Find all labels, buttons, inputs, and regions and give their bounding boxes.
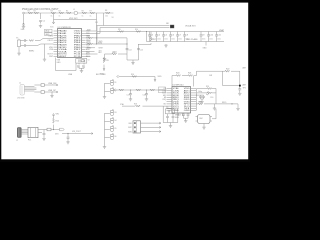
wire <box>86 28 101 34</box>
resistor R22 <box>223 69 240 73</box>
capacitor C25 <box>66 134 69 144</box>
capacitor C27 <box>202 95 205 99</box>
microcontroller U1 <box>45 27 92 58</box>
svg-text:R20: R20 <box>176 73 179 75</box>
capacitor C1 <box>39 21 46 24</box>
wire <box>86 35 91 37</box>
wire bus <box>196 89 198 111</box>
resistor R16 <box>131 74 137 77</box>
capacitor C7 <box>176 32 181 42</box>
svg-text:3V3: 3V3 <box>95 22 98 24</box>
svg-text:1k: 1k <box>59 16 61 18</box>
svg-text:R25: R25 <box>56 121 59 123</box>
capacitor C20 <box>166 114 169 123</box>
wire <box>212 109 216 119</box>
svg-text:5V0: 5V0 <box>55 134 58 136</box>
resistor R12 <box>87 36 127 43</box>
ground <box>103 54 106 61</box>
text labels cap values <box>150 38 221 40</box>
junction <box>146 31 147 32</box>
svg-text:GND: GND <box>45 34 50 36</box>
schematic sheet <box>0 0 250 162</box>
svg-text:R5: R5 <box>66 11 68 13</box>
wire <box>141 131 162 133</box>
svg-text:C18: C18 <box>143 95 146 97</box>
svg-text:4p7: 4p7 <box>206 94 209 96</box>
junction <box>96 43 97 44</box>
resistor R23 <box>198 102 215 105</box>
svg-text:C7: C7 <box>179 35 181 37</box>
svg-text:1k: 1k <box>82 16 84 18</box>
wire VCC rail top <box>41 12 104 14</box>
wire <box>40 13 42 19</box>
svg-text:U2 NRF24L0: U2 NRF24L0 <box>173 85 184 87</box>
wire <box>138 44 151 46</box>
wire <box>86 43 89 45</box>
junction <box>117 31 118 32</box>
capacitor C12 <box>21 39 28 42</box>
svg-text:100n: 100n <box>202 38 206 40</box>
svg-text:C30: C30 <box>210 97 213 99</box>
svg-text:GND PLANE: GND PLANE <box>186 38 198 41</box>
junction <box>231 103 232 104</box>
capacitor C9 <box>200 32 205 42</box>
wire <box>104 113 106 145</box>
svg-text:VIN_PROT: VIN_PROT <box>72 131 82 133</box>
switch S5 <box>105 126 117 132</box>
svg-text:R21: R21 <box>188 73 191 75</box>
capacitor C21 <box>172 114 175 123</box>
net label <box>128 123 133 133</box>
svg-text:GND: GND <box>203 48 208 50</box>
svg-text:IRQ: IRQ <box>163 99 167 101</box>
resistor R13 <box>87 43 127 49</box>
boxed net label <box>159 87 166 93</box>
ground <box>164 44 167 47</box>
wire <box>21 130 28 135</box>
capacitor C5 <box>162 32 167 42</box>
svg-text:R3: R3 <box>51 11 53 13</box>
bus wire <box>100 27 170 29</box>
text label <box>99 41 117 54</box>
svg-text:R24: R24 <box>206 86 209 88</box>
svg-text:1k: 1k <box>51 16 53 18</box>
resistor R1 <box>27 11 41 14</box>
oscillator X1 <box>196 115 213 124</box>
ferrite bead FB4 <box>47 128 54 131</box>
svg-text:GND: GND <box>173 110 180 112</box>
ground <box>169 125 172 128</box>
svg-text:TP2: TP2 <box>243 88 246 90</box>
capacitor C11 <box>215 32 221 42</box>
wire <box>24 87 36 92</box>
junction <box>67 133 68 134</box>
capacitor C26 <box>199 95 202 99</box>
svg-text:10k: 10k <box>87 40 90 42</box>
capacitor C18 <box>143 89 149 100</box>
svg-text:R7: R7 <box>90 11 92 13</box>
crystal Y2 <box>76 59 90 64</box>
power rail <box>97 31 224 33</box>
svg-text:C9: C9 <box>202 35 204 37</box>
svg-text:C10: C10 <box>210 35 213 37</box>
wire <box>44 44 46 58</box>
capacitor C16 <box>82 63 85 68</box>
svg-text:R4: R4 <box>59 11 61 13</box>
wire <box>86 53 98 55</box>
inductor L1 <box>73 9 78 15</box>
svg-text:VDD 3V3: VDD 3V3 <box>69 18 78 20</box>
ground <box>103 146 106 149</box>
resistor R8 <box>103 10 113 18</box>
svg-text:BUTTONS: BUTTONS <box>96 74 106 76</box>
resistor R15 <box>103 57 109 63</box>
wire <box>119 76 155 78</box>
wire <box>62 133 90 135</box>
wire <box>102 13 104 26</box>
capacitor C10 <box>207 32 213 42</box>
svg-text:PC15: PC15 <box>74 56 82 58</box>
svg-text:FB1: FB1 <box>166 23 169 25</box>
wire <box>196 103 198 105</box>
svg-text:L1: L1 <box>73 9 75 11</box>
wire <box>28 44 54 46</box>
ground <box>103 96 106 99</box>
svg-text:R15: R15 <box>106 60 109 62</box>
wire <box>86 51 95 53</box>
connector J2 <box>16 128 21 143</box>
svg-text:Y2: Y2 <box>88 60 90 62</box>
switch S4 <box>105 118 117 124</box>
capacitor C15A <box>137 49 143 52</box>
svg-text:OSCO: OSCO <box>47 40 53 42</box>
net flag <box>117 75 119 78</box>
wire <box>172 76 176 87</box>
svg-text:S5: S5 <box>114 128 116 130</box>
capacitor C6 <box>169 32 174 42</box>
wire <box>56 58 77 71</box>
filter FL1 <box>28 127 38 141</box>
net labels U2 right <box>198 91 209 104</box>
ferrite bead FB3 <box>34 91 48 94</box>
capacitor C3 <box>148 32 153 42</box>
resistor R20 <box>176 73 181 77</box>
power flag <box>53 114 60 119</box>
wire <box>79 68 84 69</box>
resistor R17 <box>119 89 124 91</box>
net labels U2 left <box>162 88 167 105</box>
svg-text:GND: GND <box>57 62 62 64</box>
svg-text:C11: C11 <box>218 35 221 37</box>
connector J1 <box>17 83 25 100</box>
junction <box>96 37 97 38</box>
capacitor C23 <box>187 113 190 119</box>
wire <box>193 76 195 87</box>
crystal circuit Y3 <box>166 107 175 114</box>
svg-text:C5: C5 <box>165 35 167 37</box>
power flag <box>50 20 55 29</box>
resistor R15A <box>105 52 128 55</box>
capacitor C24 <box>42 130 45 141</box>
LED D1 <box>21 23 26 31</box>
ground <box>236 104 239 110</box>
resistor R7 <box>90 11 95 18</box>
svg-text:C8: C8 <box>186 35 188 37</box>
ferrite bead FB2 <box>34 84 48 87</box>
resistor R19 <box>150 89 155 91</box>
net arrow <box>90 133 93 135</box>
capacitor C13 <box>21 44 28 47</box>
svg-text:C15: C15 <box>140 50 143 52</box>
ground <box>39 25 42 28</box>
net VDD rail <box>54 13 97 26</box>
resistor R24 <box>197 86 217 89</box>
svg-text:S1: S1 <box>114 82 116 84</box>
wire <box>116 89 167 91</box>
wire <box>127 44 139 60</box>
wire <box>141 122 162 124</box>
svg-text:10k: 10k <box>105 16 108 18</box>
svg-text:USB_DP: USB_DP <box>48 90 57 92</box>
net flag <box>114 89 116 92</box>
wire <box>104 83 106 95</box>
ground <box>131 60 134 65</box>
wire <box>163 123 178 125</box>
svg-text:R23: R23 <box>199 102 202 104</box>
junction <box>196 95 197 96</box>
resistor R4 <box>59 11 64 18</box>
wire <box>23 14 25 24</box>
ground <box>184 118 189 122</box>
wire <box>194 71 223 75</box>
resistor R10 <box>135 29 141 32</box>
svg-text:100n: 100n <box>178 38 182 40</box>
svg-text:R1: R1 <box>28 11 30 13</box>
svg-text:S6: S6 <box>114 136 116 138</box>
svg-text:100n: 100n <box>164 38 168 40</box>
net label USB_DM <box>48 83 58 86</box>
power flag <box>100 65 105 76</box>
svg-text:VBAT: VBAT <box>219 29 225 32</box>
svg-text:R26: R26 <box>134 104 137 106</box>
wire <box>215 103 239 105</box>
svg-text:USB: USB <box>68 74 73 76</box>
svg-text:C6: C6 <box>172 35 174 37</box>
wire <box>86 26 97 32</box>
svg-text:U1 STM32F070: U1 STM32F070 <box>58 27 71 29</box>
svg-text:10k: 10k <box>87 47 90 49</box>
svg-text:VDD: VDD <box>158 76 163 78</box>
svg-text:NRST: NRST <box>99 48 104 50</box>
svg-text:RFIO: RFIO <box>222 102 227 104</box>
ground rail <box>147 32 225 42</box>
wire <box>197 95 204 100</box>
header J3 <box>133 121 141 133</box>
svg-text:USB MINI: USB MINI <box>17 98 25 100</box>
switch S1 <box>105 80 117 86</box>
capacitor C17 <box>127 89 133 100</box>
svg-text:R2: R2 <box>34 11 36 13</box>
svg-text:1k: 1k <box>90 16 92 18</box>
ground <box>200 100 203 103</box>
node VIN pad P1 <box>23 12 27 14</box>
svg-text:R10: R10 <box>135 29 138 31</box>
svg-text:S4: S4 <box>114 120 116 122</box>
svg-text:R12: R12 <box>87 36 90 38</box>
svg-text:FL1: FL1 <box>28 140 31 142</box>
svg-text:TP1: TP1 <box>99 51 102 53</box>
svg-text:100n: 100n <box>113 52 117 54</box>
capacitor C14 <box>126 49 132 52</box>
resistor R9 <box>118 29 124 32</box>
wire <box>223 71 240 85</box>
svg-text:J2: J2 <box>16 140 18 142</box>
ferrite bead FB1 <box>166 23 174 28</box>
svg-text:NRST: NRST <box>58 56 67 58</box>
wire <box>122 106 178 122</box>
resistor R6 <box>82 11 87 18</box>
wire <box>86 55 91 57</box>
svg-text:R17: R17 <box>153 39 156 41</box>
svg-text:SMD: SMD <box>175 117 180 119</box>
wire <box>179 113 183 116</box>
net labels U1 right <box>87 29 103 54</box>
ground <box>43 58 46 61</box>
svg-text:R22: R22 <box>226 69 229 71</box>
svg-text:XTAL: XTAL <box>120 103 124 106</box>
junction <box>126 43 127 44</box>
net flag <box>54 128 65 131</box>
radio IC U2 <box>167 85 197 113</box>
net label column <box>207 92 213 100</box>
net label USB_DP <box>48 90 58 93</box>
switch S2 <box>105 88 117 94</box>
resistor R3 <box>51 11 56 18</box>
ground <box>213 104 216 110</box>
svg-text:S3: S3 <box>114 112 116 114</box>
svg-text:C17: C17 <box>127 95 130 97</box>
resistor R11 <box>29 39 54 42</box>
svg-text:100n: 100n <box>157 38 161 40</box>
svg-text:GND: GND <box>184 110 190 112</box>
capacitor C4 <box>155 32 160 42</box>
resistor R17 <box>150 32 156 45</box>
svg-text:Y3: Y3 <box>166 107 168 109</box>
svg-text:8MHz: 8MHz <box>29 51 34 53</box>
resistor R5 <box>66 11 71 14</box>
text label <box>57 60 62 65</box>
ground <box>17 48 20 55</box>
wire <box>205 42 207 46</box>
junction <box>53 129 54 130</box>
resistor R25 <box>53 119 59 130</box>
svg-text:100n: 100n <box>217 38 221 40</box>
bus wire <box>97 25 170 27</box>
resistor R21 <box>182 73 193 77</box>
svg-text:VDDA 3V3: VDDA 3V3 <box>185 25 196 28</box>
svg-text:R6: R6 <box>82 11 84 13</box>
svg-text:USB_DM: USB_DM <box>48 83 57 85</box>
wire <box>141 126 162 128</box>
capacitor C19 <box>238 89 241 95</box>
svg-text:C14: C14 <box>128 50 131 52</box>
inductor L2 <box>197 89 217 104</box>
wire <box>86 47 96 49</box>
resistor R18 <box>136 89 141 91</box>
wire <box>239 71 241 89</box>
wire <box>96 26 98 45</box>
crystal Y1 <box>16 38 21 49</box>
ground <box>80 70 83 73</box>
svg-text:J1: J1 <box>19 83 21 85</box>
resistor R2 <box>34 11 39 14</box>
resistor R26 <box>134 104 140 107</box>
text label <box>175 115 181 120</box>
capacitor C15 <box>77 63 80 68</box>
capacitor C22 <box>182 113 185 119</box>
ground <box>202 124 205 130</box>
power flag <box>154 76 162 82</box>
switch S6 <box>105 134 117 140</box>
svg-text:R16: R16 <box>131 74 134 76</box>
svg-text:C4: C4 <box>158 35 160 37</box>
svg-text:VDD: VDD <box>45 31 50 33</box>
svg-text:100n: 100n <box>209 38 213 40</box>
svg-text:R8: R8 <box>105 10 107 12</box>
svg-text:100n: 100n <box>171 38 175 40</box>
wire <box>38 130 47 133</box>
wire <box>86 37 89 39</box>
switch S3 <box>105 110 117 116</box>
antenna pad TP <box>239 84 247 90</box>
ground <box>48 92 54 98</box>
capacitor C8 <box>183 32 188 42</box>
wire <box>97 32 128 45</box>
